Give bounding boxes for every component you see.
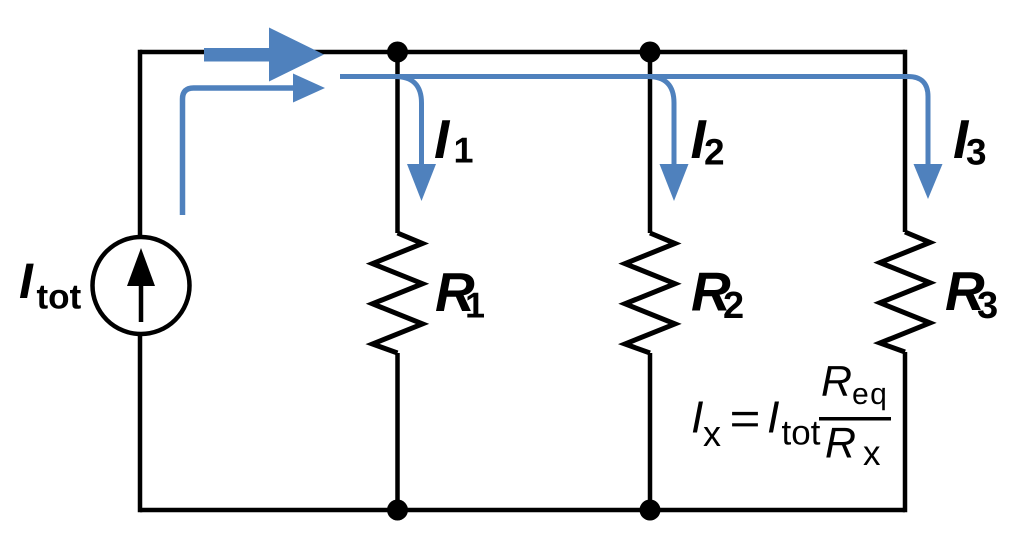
big current arrow Itot	[204, 28, 324, 82]
wire top	[140, 50, 905, 55]
wire left vertical lower	[138, 335, 143, 512]
wire left vertical upper	[138, 50, 143, 236]
node top junction 1	[387, 42, 408, 63]
label I1	[435, 120, 473, 162]
wire branch3 upper	[903, 50, 908, 232]
branch arrow I1	[395, 77, 436, 202]
long blue distribution line with I3 arrow	[340, 77, 943, 200]
resistor R2	[625, 233, 675, 353]
label Itot	[20, 264, 81, 309]
wire branch1 upper	[395, 52, 400, 233]
label R2	[692, 273, 743, 318]
label R3	[946, 272, 997, 318]
current source I_tot	[93, 237, 190, 334]
branch arrow I2	[648, 77, 689, 202]
label R1	[436, 273, 484, 317]
wire branch3 lower	[903, 352, 908, 512]
formula Ix = Itot * Req/Rx	[693, 366, 891, 465]
node top junction 2	[640, 42, 661, 63]
wire branch1 lower	[395, 353, 400, 510]
wire branch2 lower	[648, 353, 653, 510]
small L current arrow	[183, 74, 326, 216]
label I2	[692, 120, 724, 164]
resistor R3	[880, 232, 930, 352]
node bottom junction 1	[387, 500, 408, 521]
wire bottom	[140, 508, 905, 513]
label I3	[954, 120, 985, 165]
wire branch2 upper	[648, 52, 653, 233]
resistor R1	[373, 233, 423, 353]
node bottom junction 2	[640, 500, 661, 521]
